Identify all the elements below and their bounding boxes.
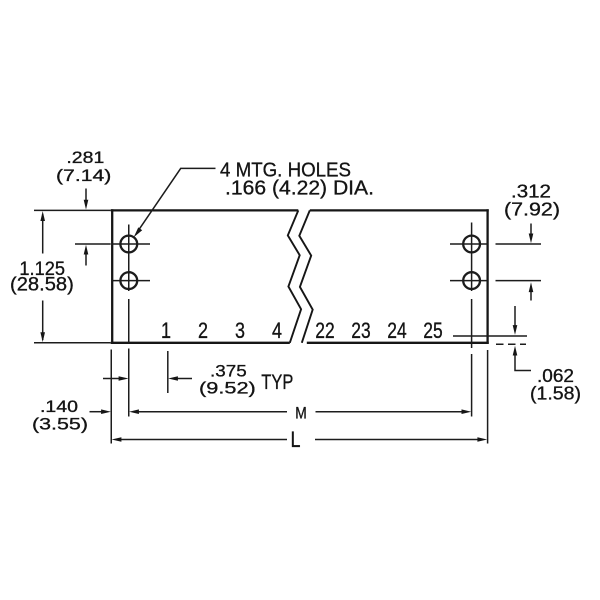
svg-text:(7.92): (7.92) (504, 200, 560, 220)
svg-text:.166 (4.22) DIA.: .166 (4.22) DIA. (225, 177, 374, 200)
svg-text:1: 1 (161, 318, 171, 343)
svg-text:2: 2 (198, 318, 208, 343)
svg-text:(1.58): (1.58) (530, 384, 581, 404)
svg-text:TYP: TYP (261, 371, 293, 394)
svg-text:25: 25 (423, 318, 442, 343)
svg-text:(28.58): (28.58) (10, 274, 74, 295)
svg-text:(7.14): (7.14) (56, 166, 111, 185)
svg-text:4: 4 (272, 318, 282, 343)
svg-text:3: 3 (235, 318, 245, 343)
svg-text:22: 22 (315, 318, 334, 343)
svg-text:.281: .281 (66, 148, 104, 167)
svg-text:M: M (295, 403, 307, 422)
svg-text:(3.55): (3.55) (32, 415, 88, 434)
svg-text:(9.52): (9.52) (199, 378, 256, 397)
svg-text:.312: .312 (511, 182, 551, 202)
svg-text:L: L (291, 427, 301, 452)
svg-text:.140: .140 (40, 397, 78, 416)
svg-text:24: 24 (387, 318, 406, 343)
svg-text:23: 23 (351, 318, 370, 343)
